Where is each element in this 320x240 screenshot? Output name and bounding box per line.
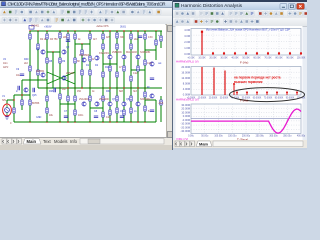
svg-text:0.22: 0.22 [106,116,111,119]
resistor R45 [74,110,76,115]
resistor R5 [109,66,111,71]
wire v90 [89,31,91,122]
source V1 [5,105,10,115]
node bot-47 [46,121,47,122]
svg-text:20.000K: 20.000K [209,97,218,99]
resistor R11 [46,34,48,39]
resistor R49 [144,106,146,111]
svg-text:KSA1381: KSA1381 [99,52,110,55]
svg-text:10m: 10m [3,62,8,65]
plot1 x labels [187,57,305,59]
plot3 x axis title [237,137,248,141]
transistor Q9 [136,55,140,59]
node top-30 [29,30,30,31]
wire v138t [137,31,139,55]
plot1 y labels [184,28,190,56]
svg-text:4.0M: 4.0M [184,28,190,32]
transistor Q8 [122,55,126,59]
wire h80 [22,79,47,81]
transistor Q2 [62,50,66,54]
svg-text:HARM(V(RL)) (V): HARM(V(RL)) (V) [176,97,199,101]
svg-text:Main: Main [27,139,37,144]
wire v145 [144,31,146,122]
wire v138c [137,107,139,123]
svg-text:2N5551: 2N5551 [36,70,45,73]
svg-text:R4 750: R4 750 [50,38,58,41]
svg-text:-10.00M: -10.00M [180,122,190,126]
node mid-103 [102,87,103,88]
node bot-110 [109,121,110,122]
wire h44 [75,43,90,45]
svg-text:1.0M: 1.0M [184,46,190,50]
resistor R23 [89,56,91,61]
plot2 y labels [181,65,190,97]
svg-text:400.00u: 400.00u [297,135,306,137]
resistor R36 [46,96,48,101]
node top-90 [89,30,90,31]
resistor R51 [160,100,162,105]
resistor R51 [13,108,15,113]
transistor Q4 [62,76,66,80]
resistor R50 [21,100,23,105]
node top-47 [46,30,47,31]
svg-text:10.00M: 10.00M [181,110,190,114]
wire h50 [145,49,156,51]
node mid-60 [59,87,60,88]
svg-text:MJL21193: MJL21193 [126,51,137,54]
svg-text:R40: R40 [24,58,29,61]
resistor R39 [89,96,91,101]
resistor R44 [46,108,48,113]
svg-text:высших гармоник: высших гармоник [234,80,263,84]
svg-text:2.0M: 2.0M [184,40,190,44]
svg-text:R2 1k: R2 1k [40,38,47,41]
node mid-90 [89,87,90,88]
resistor R30 [89,70,91,75]
node top-145 [144,30,145,31]
svg-text:BC556: BC556 [32,102,40,105]
capacitor C4 [66,40,70,42]
node top-75 [74,30,75,31]
node mid-117 [116,87,117,88]
plot3 curve label [176,137,188,141]
wire v138b [137,60,139,89]
annotation black ellipse [230,88,305,102]
node mid-131 [130,87,131,88]
plot3 x labels [188,135,306,137]
capacitor C11 [18,86,20,90]
svg-text:R27: R27 [62,88,67,91]
component X1 header [29,26,34,30]
svg-text:0.00M: 0.00M [183,93,190,97]
resistor R34 [144,60,146,65]
node mid-110 [109,87,110,88]
wire src-link [7,99,14,101]
wire v131 [130,31,132,122]
svg-text:0.22: 0.22 [133,72,138,75]
node bot-145 [144,121,145,122]
plot1 grid frame [191,29,301,56]
svg-text:40.00K: 40.00K [231,57,239,59]
svg-text:NJW0302: NJW0302 [140,98,151,101]
svg-text:8.00M: 8.00M [183,82,190,86]
svg-text:F (Hz): F (Hz) [240,98,248,102]
wire v68 [67,31,69,122]
svg-text:-30.00M: -30.00M [180,129,190,133]
svg-text:-0.00M: -0.00M [182,118,190,122]
capacitor C7 [64,116,68,118]
wire v22 [21,80,23,110]
svg-text:0.0M: 0.0M [184,52,190,56]
transistor Q11 [95,102,99,106]
resistor R20 [46,58,48,63]
annotation red ellipse [3,104,12,116]
svg-text:Q15: Q15 [32,94,37,97]
node top-117 [116,30,117,31]
plot1 harmonic markers [212,52,302,55]
svg-text:Models: Models [54,139,68,144]
wire v156b [155,100,157,122]
node n44 [81,43,82,44]
wire v161 [160,31,162,48]
transistor Q14 [136,102,140,106]
svg-text:300.00u: 300.00u [269,135,278,137]
svg-text:0.00M: 0.00M [183,114,190,118]
svg-text:60.000K: 60.000K [253,97,262,99]
svg-text:Harmonic Distortion Analysis: Harmonic Distortion Analysis [181,3,243,9]
resistor R42 [130,96,132,101]
node n95 [21,94,22,95]
plot3 grid frame [191,104,301,134]
transistor Q7 [108,55,112,59]
svg-text:GND: GND [36,116,42,119]
transistor Q10 [82,102,86,106]
wire h100 [145,99,156,101]
svg-text:30.00M: 30.00M [181,103,190,107]
resistor R28 [29,66,31,71]
plot1 title [206,28,290,32]
wire v117 [116,31,118,122]
wire v38 [37,31,39,88]
svg-text:R30: R30 [106,90,111,93]
wire h104 [60,103,75,105]
resistor R7 [137,66,139,71]
svg-text:2N5401: 2N5401 [66,72,75,75]
wire v30 [29,31,31,122]
svg-text:-36.8: -36.8 [158,102,164,105]
node top-68 [67,30,68,31]
resistor R16 [116,33,118,38]
svg-text:Text: Text [43,139,52,144]
resistor R31 [102,72,104,77]
svg-text:4.00M: 4.00M [183,87,190,91]
wire mid rail [38,87,162,89]
resistor R14 [89,34,91,39]
resistor R35 [29,100,31,105]
resistor R22 [74,58,76,63]
node mid-124 [123,87,124,88]
resistor R25 [116,44,118,49]
node bot-60 [59,121,60,122]
wire v124b [123,60,125,89]
node top-131 [130,30,131,31]
node mid-75 [74,87,75,88]
node bot-117 [116,121,117,122]
svg-text:на первом периоде нет роста: на первом периоде нет роста [234,76,281,80]
resistor R48 [130,108,132,113]
resistor R13 [74,34,76,39]
node top-156 [155,30,156,31]
wire v14 [13,95,15,122]
svg-text:20.00K: 20.00K [209,57,217,59]
svg-text:150.00u: 150.00u [228,135,237,137]
wire v156 [155,31,157,60]
node mid-47 [46,87,47,88]
svg-text:-20.00M: -20.00M [180,125,190,129]
wire v161b [160,96,162,122]
svg-text:16.00M: 16.00M [181,71,190,75]
svg-text:2N5401: 2N5401 [31,25,40,28]
plot2 x labels [187,97,306,99]
svg-text:0.33: 0.33 [148,36,153,39]
svg-text:1kHz: 1kHz [3,66,9,69]
svg-text:Main: Main [199,141,209,146]
svg-text:20.00M: 20.00M [181,107,190,111]
plot2 stem H3 [224,71,226,96]
wire h70 [131,69,145,71]
resistor R6 [123,66,125,71]
capacitor C5 [138,36,142,38]
wire v110t [109,31,111,55]
node mid-68 [67,87,68,88]
svg-text:R26: R26 [49,90,54,93]
transistor Q5 [82,58,86,62]
capacitor C1 [20,74,24,76]
annotation red text [234,76,281,84]
wire v53 [52,52,54,88]
wire v7 [6,100,8,104]
wire V- rail [14,121,156,123]
node top-103 [102,30,103,31]
svg-text:R12: R12 [105,66,110,69]
svg-text:3.0M: 3.0M [184,34,190,38]
svg-text:.define OPS: .define OPS [96,25,109,28]
capacitor C10 [150,110,154,112]
plot3 sine curve V(RL) [191,109,301,133]
wire cross-couple [47,72,75,84]
transistor Q1 [41,50,45,54]
svg-text:out: out [158,62,162,65]
node mid-138 [137,87,138,88]
resistor R38 [74,96,76,101]
wire v124d [123,88,125,102]
node top-138 [137,30,138,31]
resistor R12 [59,33,61,38]
node mid-145 [144,87,145,88]
plot2 curve label [176,97,199,101]
wire v110b [109,60,111,89]
transistor Q6 [95,56,99,60]
node bot-75 [74,121,75,122]
node top-110 [109,30,110,31]
svg-text:30.00K: 30.00K [220,57,228,59]
resistor R41 [116,96,118,101]
transistor Q16 [150,62,154,66]
node top-60 [59,30,60,31]
resistor R2 [67,96,69,101]
resistor R9 [123,110,125,115]
svg-text:10.00K: 10.00K [198,57,206,59]
svg-text:30.000K: 30.000K [220,97,229,99]
node bot-68 [67,121,68,122]
svg-text:NJW0281: NJW0281 [140,51,151,54]
resistor R29 [37,70,39,75]
wire v103 [102,31,104,122]
svg-text:HARM(V(RL)) (V): HARM(V(RL)) (V) [176,59,199,63]
resistor R4 [81,70,83,75]
svg-text:0.00u: 0.00u [188,135,194,137]
svg-text:2SB649C: 2SB649C [112,51,122,54]
plot2 stem H2 [213,68,215,96]
resistor R24 [102,44,104,49]
resistor R32 [116,72,118,77]
resistor R33 [130,76,132,81]
capacitor C8 [94,116,98,118]
resistor R8 [109,110,111,115]
resistor R1 [67,34,69,39]
svg-text:0.22: 0.22 [147,62,152,65]
svg-text:+36.8V: +36.8V [44,26,52,29]
plot2 stem H4 [233,83,235,95]
plot1 curve label [176,59,199,63]
resistor R15 [102,34,104,39]
svg-text:250.00u: 250.00u [256,135,265,137]
transistor Q17 [150,94,154,98]
wire v60 [59,31,61,122]
wire v124c [123,107,125,123]
svg-text:80.000K: 80.000K [275,97,284,99]
wire v75 [74,31,76,122]
transistor Q13 [122,102,126,106]
svg-text:KSC3503: KSC3503 [79,54,90,57]
capacitor C6 [150,78,154,80]
resistor R19 [37,44,39,49]
transistor Q12 [108,102,112,106]
capacitor C3 [54,88,56,92]
plot2 grid frame [191,67,301,96]
resistor R21 [59,58,61,63]
resistor R43 [144,92,146,97]
svg-text:SIN: SIN [2,99,6,102]
resistor R47 [116,108,118,113]
ground GND1 [5,115,9,119]
svg-text:350.00u: 350.00u [283,135,292,137]
svg-text:60.00K: 60.00K [253,57,261,59]
node bot-90 [89,121,90,122]
capacitor C2 [33,88,35,92]
node top-38 [37,30,38,31]
plot3 zero line [191,118,301,120]
node mid-82 [81,87,82,88]
svg-text:C:\MC10\DATA\N.Petrov\TRIAL\Br: C:\MC10\DATA\N.Petrov\TRIAL\Briet_Balanc… [8,2,166,7]
resistor R46 [102,112,104,117]
wire h95 [14,94,30,96]
svg-text:50.00u: 50.00u [201,135,209,137]
svg-text:Info: Info [70,139,78,144]
svg-text:2SA1943: 2SA1943 [79,98,89,101]
resistor R40 [102,96,104,101]
svg-text:70.00K: 70.00K [264,57,272,59]
plot2 small harmonics [236,91,298,95]
svg-text:12.00M: 12.00M [181,76,190,80]
node bot-138 [137,121,138,122]
plot2 x axis title [240,98,248,102]
resistor R10 [29,34,31,39]
plot1 x axis title [240,61,248,65]
svg-text:Источник Balance_JLH искаж ОРЗ: Источник Balance_JLH искаж ОРЗ Hameleon … [206,28,290,32]
wire v138d [137,88,139,102]
svg-text:100.00K: 100.00K [297,57,306,59]
svg-text:10.000K: 10.000K [198,97,207,99]
resistor R3 [81,50,83,55]
resistor R18 [144,34,146,39]
resistor R37 [59,94,61,99]
wire v110c [109,107,111,123]
node bot-30 [29,121,30,122]
svg-text:90.00K: 90.00K [286,57,294,59]
wire h64 [103,63,117,65]
plot3 y labels [180,103,190,133]
resistor R26 [130,44,132,49]
transistor Q15 [24,88,28,92]
wire h52 [47,51,60,53]
node top-124 [123,30,124,31]
plot2 stem H1 [201,67,203,95]
resistor R27 [155,40,157,45]
resistor R17 [130,34,132,39]
plot1 fundamental stem [201,31,203,55]
svg-text:70.000K: 70.000K [264,97,273,99]
svg-text:100n: 100n [78,114,84,117]
svg-text:20.00M: 20.00M [181,65,190,69]
node n-src [13,99,14,100]
node bot-103 [102,121,103,122]
svg-text:2SC5200: 2SC5200 [99,98,109,101]
capacitor C9 [120,116,124,118]
resistor R50 [160,36,162,41]
svg-text:50.00K: 50.00K [242,57,250,59]
svg-text:36.81: 36.81 [120,26,126,29]
wire v124t [123,31,125,55]
wire v110d [109,88,111,102]
node bot-131 [130,121,131,122]
wire h108 [90,107,103,109]
svg-text:80.00K: 80.00K [275,57,283,59]
svg-text:F (Hz): F (Hz) [240,61,248,65]
wire V+ rail [30,30,162,32]
svg-text:100.00u: 100.00u [214,135,223,137]
wire v82 [81,44,83,88]
transistor Q3 [41,73,45,77]
wire v47 [46,31,48,122]
node n52 [52,51,53,52]
